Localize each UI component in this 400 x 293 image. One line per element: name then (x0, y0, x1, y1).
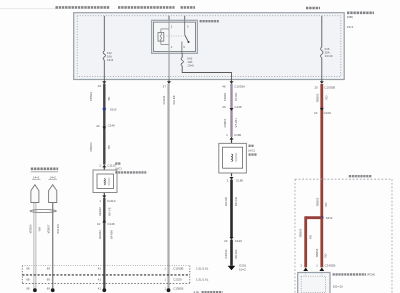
A/C compressor box (219, 143, 247, 173)
svg-text:(NB): (NB) (347, 15, 353, 19)
wire: fuse K62 to exit 46 (L-run) (182, 66, 231, 80)
svg-text:1: 1 (99, 199, 101, 203)
svg-text:2: 2 (301, 264, 303, 268)
svg-text:2: 2 (99, 164, 101, 168)
compressor coil (232, 154, 233, 162)
connector C1035A exit arrow pin 46 (222, 80, 245, 89)
optional equipment dashed enclosure (heated seats) (295, 179, 392, 293)
splice S410 (320, 216, 323, 219)
svg-text:C146: C146 (234, 105, 242, 109)
connector C146 on wire1 pin 22 (96, 124, 115, 130)
svg-text:23: 23 (314, 111, 318, 115)
row pins wire A column (26, 267, 30, 291)
svg-text:WH: WH (37, 227, 41, 232)
svg-text:(A/C): (A/C) (115, 167, 122, 171)
wire: F16 to exit 25 (321, 58, 323, 80)
svg-text:1.5L/1.6L: 1.5L/1.6L (196, 277, 209, 281)
wire through compressor (231, 139, 233, 176)
svg-text:CLN36: CLN36 (162, 95, 166, 104)
connector C146 pin 10 arrow (97, 220, 115, 226)
svg-text:C2402B: C2402B (325, 264, 336, 268)
svg-text:41: 41 (98, 286, 102, 290)
wire: BK branch from pin16 (wire 1 upper) (103, 84, 105, 165)
module communication network header (31, 169, 58, 180)
svg-text:SBB06: SBB06 (315, 248, 319, 257)
fuse F16 20A (321, 47, 323, 58)
wire: relay pin6 output VT (wire 3 upper) (230, 84, 232, 137)
svg-text:C1035A: C1035A (234, 84, 245, 88)
relay switch (184, 20, 186, 35)
wire: red branch right down (320, 218, 323, 268)
svg-text:C146: C146 (235, 239, 243, 243)
splice S210 (103, 107, 106, 110)
wire: red branch horizontal (306, 216, 322, 219)
svg-text:CBN23: CBN23 (89, 92, 93, 101)
svg-text:1: 1 (164, 277, 166, 281)
svg-text:CBN23: CBN23 (89, 142, 93, 151)
svg-text:C219: C219 (324, 111, 332, 115)
relay coil (158, 33, 164, 42)
svg-text:VDB06: VDB06 (29, 224, 33, 233)
svg-text:10: 10 (97, 222, 101, 226)
twisted pair crossover (30, 210, 56, 213)
solenoid name label (A/C compressor clutch control solenoid) (115, 164, 146, 173)
solenoid coil (104, 178, 105, 185)
svg-text:RD: RD (324, 202, 328, 206)
connector C180 pin 1 entry arrow (226, 133, 241, 140)
svg-text:WH-BK: WH-BK (172, 95, 176, 104)
svg-text:(A/C): (A/C) (248, 149, 255, 153)
svg-text:RD: RD (308, 235, 312, 239)
connector C1110 pin 2 entry arrow (99, 164, 116, 168)
svg-text:BK: BK (107, 97, 111, 101)
svg-text:26: 26 (222, 105, 226, 109)
svg-text:37: 37 (163, 84, 167, 88)
svg-text:C2329: C2329 (173, 277, 182, 281)
svg-text:VDB07: VDB07 (47, 224, 51, 233)
A/C compressor clutch control solenoid box (93, 170, 117, 193)
svg-text:151=10: 151=10 (333, 284, 343, 288)
svg-text:1: 1 (316, 264, 318, 268)
PCM name label (333, 273, 375, 289)
compressor name label (A/C compressor) (248, 146, 257, 155)
svg-text:BK-OG: BK-OG (234, 197, 238, 206)
svg-text:GD130: GD130 (224, 249, 228, 258)
fuse F12 10A (103, 51, 105, 60)
connector C2402B entry arrows pins 2,1 (301, 264, 336, 272)
row pins wire 2 column + connectors (164, 267, 183, 291)
wire: to ground G201 (230, 240, 233, 266)
connector C1035A exit arrow pin 16 (98, 80, 107, 89)
svg-text:68: 68 (26, 267, 30, 271)
wire: relay pin1 to exit 37 (168, 53, 170, 79)
svg-text:WH-BU: WH-BU (56, 224, 60, 233)
connector C1035B exit arrow pin 25 (314, 80, 335, 90)
wire: red branch left down (304, 216, 307, 267)
wire: solenoid low side (wire 1 mid) (103, 198, 105, 222)
wire: battery power RD (wire 4) (320, 84, 323, 218)
relay coil leads (161, 29, 169, 44)
wire: F12 to exit 16 (103, 60, 105, 80)
svg-text:69: 69 (47, 286, 51, 290)
svg-text:23: 23 (224, 239, 228, 243)
wire: relay pin6 to fuse K62 (181, 53, 183, 57)
svg-text:13=6: 13=6 (107, 58, 114, 62)
svg-text:C1381B: C1381B (173, 286, 183, 290)
svg-text:68: 68 (26, 277, 30, 281)
svg-text:GD130: GD130 (224, 197, 228, 206)
fuse K62 10A (181, 58, 183, 66)
wire: fuse F16 feed (in box) (321, 16, 323, 47)
wire2 terminal dot (167, 288, 171, 292)
wire A (double line WH) (34, 203, 36, 290)
svg-text:1: 1 (226, 133, 228, 137)
PCM connector variant rows (22, 266, 190, 284)
connector exit arrow pin 37 (163, 80, 171, 89)
engine variant notes (194, 267, 223, 293)
connector C146 pin 26 arrow (222, 105, 242, 111)
svg-text:REA62: REA62 (98, 230, 102, 239)
svg-text:SBB05: SBB05 (316, 197, 320, 206)
svg-text:WH-BK: WH-BK (110, 230, 114, 239)
connector C146 pin 23 arrow (224, 237, 242, 243)
wire through solenoid (103, 167, 105, 196)
wire: relay pin 2 feed stub (168, 16, 170, 20)
svg-text:S410: S410 (326, 216, 333, 220)
net label: hot at all times 2 (306, 7, 320, 10)
svg-text:RD: RD (325, 95, 329, 99)
svg-text:69: 69 (47, 277, 51, 281)
connector C219 pin 23 arrow (314, 108, 331, 115)
BJB name label: battery junction box (NB) (347, 13, 374, 29)
svg-text:C180: C180 (236, 179, 244, 183)
net label: start/run power 1 (56, 6, 111, 9)
wire: relay pin1 output (wire 2) (167, 84, 169, 290)
svg-text:BK: BK (107, 145, 111, 149)
svg-text:10=2: 10=2 (239, 268, 246, 272)
svg-text:S210: S210 (110, 107, 117, 111)
connector C1110 pin 1 exit arrow (99, 196, 115, 204)
wire: pin2 to pin1 through (168, 20, 170, 53)
svg-text:13=1: 13=1 (347, 25, 354, 29)
svg-text:14=2: 14=2 (50, 175, 57, 179)
relay K62 A/C clutch relay (152, 20, 198, 53)
svg-text:BK-OG: BK-OG (234, 249, 238, 258)
svg-text:SBB05: SBB05 (315, 93, 319, 102)
battery junction box (BJB) enclosure (74, 13, 345, 80)
page rule (0, 8, 57, 10)
svg-text:68: 68 (26, 286, 30, 290)
svg-text:C180: C180 (234, 133, 242, 137)
svg-text:1: 1 (164, 267, 166, 271)
svg-text:CN801: CN801 (223, 118, 227, 127)
wire1 terminal dot (102, 288, 106, 292)
connector C180 pin 2 exit arrow (227, 177, 244, 183)
wire: compressor ground BK (wire 3 lower) (230, 180, 233, 237)
PCM module box (298, 273, 330, 293)
svg-text:(PCM): (PCM) (367, 273, 375, 277)
svg-text:RD: RD (323, 253, 327, 257)
svg-text:69: 69 (47, 267, 51, 271)
wire: wire1 lower run to PCM (103, 222, 105, 289)
svg-text:13=10: 13=10 (325, 54, 333, 58)
svg-text:2: 2 (227, 179, 229, 183)
net label: start/run power 2 (118, 6, 175, 9)
svg-text:13=6: 13=6 (187, 64, 194, 68)
svg-text:25: 25 (314, 85, 318, 89)
svg-text:46: 46 (222, 84, 226, 88)
ground G201 (228, 263, 247, 271)
relay name label (200, 20, 219, 22)
svg-text:41: 41 (98, 277, 102, 281)
svg-text:1: 1 (164, 286, 166, 290)
wireA terminal dot (33, 288, 37, 292)
row pins wire 1 column (98, 267, 102, 291)
svg-text:22: 22 (96, 124, 100, 128)
relay actuate dash link (164, 35, 184, 37)
svg-text:C1015B: C1015B (173, 267, 183, 271)
svg-text:C1110: C1110 (107, 199, 116, 203)
svg-text:CN401: CN401 (223, 92, 227, 101)
svg-text:14=2: 14=2 (33, 175, 40, 179)
off-page connector pentagon B (49, 185, 57, 203)
off-page connector pentagon A (31, 185, 39, 203)
svg-text:VT-WH: VT-WH (234, 118, 238, 127)
wire: relay pin 3 feed stub (184, 16, 186, 20)
svg-text:41: 41 (98, 267, 102, 271)
row pins wire B column (47, 267, 51, 291)
wireB terminal dot (51, 288, 55, 292)
svg-text:VT-RD: VT-RD (234, 93, 238, 101)
svg-text:BK-YE: BK-YE (108, 207, 112, 216)
svg-text:1.5L/1.6L: 1.5L/1.6L (196, 267, 209, 271)
svg-text:SBB05: SBB05 (298, 228, 302, 237)
svg-text:16: 16 (98, 84, 102, 88)
svg-text:VEA62: VEA62 (98, 207, 102, 216)
svg-text:C146: C146 (108, 124, 116, 128)
svg-text:C1035B: C1035B (324, 85, 335, 89)
svg-text:C146: C146 (107, 222, 115, 226)
wire B (WH-BU) (52, 203, 54, 290)
net label: hot at all times 1 (181, 6, 196, 9)
wire: fuse F12 feed (in box) (103, 16, 105, 51)
enclosure label (349, 175, 372, 177)
